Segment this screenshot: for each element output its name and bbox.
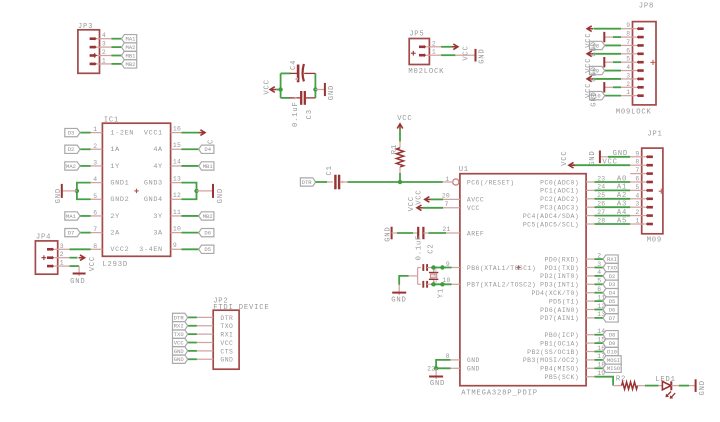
svg-text:GND: GND [328,85,336,100]
net label MB1 [199,162,214,170]
net label MA2 [122,43,137,51]
capacitor C4 [290,60,315,83]
net label DTR [300,178,315,186]
svg-text:VCC: VCC [467,205,480,212]
svg-text:3Y: 3Y [153,213,162,221]
svg-text:3: 3 [635,201,639,208]
wire [595,334,604,336]
svg-text:GND: GND [174,348,185,355]
wire [70,248,91,250]
svg-text:JP1: JP1 [647,130,662,138]
power VCC [415,189,443,204]
svg-text:GND2: GND2 [110,196,129,204]
net label MB1 [122,51,137,59]
wire [595,309,604,311]
wire [188,316,197,318]
power VCC [79,255,97,271]
wire [594,78,622,80]
svg-text:PB3(MOSI/OC2): PB3(MOSI/OC2) [523,357,579,364]
wire [605,44,621,46]
net label D4 [199,145,214,153]
resistor R1 [391,129,404,173]
wire [428,232,446,234]
svg-text:GND: GND [220,357,233,364]
svg-text:21: 21 [442,226,450,233]
capacitor C3 [289,91,315,127]
svg-text:TXO: TXO [220,323,233,330]
svg-text:1: 1 [93,126,97,133]
wire [595,275,604,277]
wire A2 [595,192,631,200]
connector JP5 [408,31,444,76]
svg-text:M09: M09 [647,236,662,244]
svg-text:D2: D2 [609,273,616,280]
wire [594,28,622,30]
svg-text:D2: D2 [68,146,75,153]
wire [348,181,443,183]
power VCC [199,130,216,154]
svg-text:3: 3 [102,41,106,48]
wire [188,342,197,344]
svg-text:3A: 3A [153,230,163,238]
svg-text:0.1uF: 0.1uF [292,101,300,127]
wire [188,325,197,327]
svg-text:DTR: DTR [220,315,233,322]
svg-text:PB1(OC1A): PB1(OC1A) [540,340,579,347]
wire [595,258,604,260]
capacitor C1 [326,165,348,189]
svg-text:5: 5 [626,56,630,63]
svg-text:15: 15 [173,142,181,149]
svg-text:TXO: TXO [607,264,618,271]
net label D5 [199,245,214,253]
wire [80,132,91,134]
wire [112,63,122,65]
svg-text:D4: D4 [204,146,211,153]
wire [595,351,604,353]
wire A1 [595,184,631,192]
svg-text:PD1(TXD): PD1(TXD) [545,265,580,272]
net label MA1 [65,212,80,220]
svg-text:PD7(AIN1): PD7(AIN1) [540,315,579,322]
junction [440,265,444,269]
svg-text:1: 1 [635,218,639,225]
power VCC [397,115,412,129]
svg-text:1: 1 [626,89,630,96]
ground [315,83,336,100]
power VCC [263,79,280,94]
svg-text:22: 22 [427,366,435,373]
svg-text:DTR: DTR [302,179,313,186]
svg-text:5: 5 [635,184,639,191]
svg-text:GND: GND [613,150,628,158]
svg-text:6: 6 [635,176,639,183]
junction [431,282,435,286]
wire [595,317,604,319]
svg-text:4: 4 [93,176,97,183]
svg-text:C2: C2 [428,244,436,254]
net label D6 [603,305,618,313]
net label GND [173,355,188,363]
wire [605,70,621,72]
net label MISO [603,364,621,372]
svg-text:Y1: Y1 [438,288,446,298]
svg-text:GND: GND [590,41,598,56]
svg-text:MISO: MISO [607,365,621,372]
wire [595,359,604,361]
svg-text:VCC: VCC [397,115,412,123]
net label D6 [199,228,214,236]
wire [595,292,604,294]
svg-text:GND: GND [478,48,486,63]
svg-text:12: 12 [173,192,181,199]
svg-text:1: 1 [60,260,64,267]
wire [605,95,621,97]
wire A0 [595,175,631,183]
net label D7 [65,228,80,236]
svg-text:PC5(ADC5/SCL): PC5(ADC5/SCL) [523,221,579,228]
wire [595,377,614,386]
svg-text:9: 9 [173,242,177,249]
svg-text:MB1: MB1 [203,163,214,170]
svg-text:2A: 2A [110,230,120,238]
net label D9 [590,66,605,74]
svg-text:L293D: L293D [102,261,128,269]
svg-text:0.1uF: 0.1uF [416,235,424,261]
svg-text:GND: GND [217,188,225,203]
net label RXI [173,322,188,330]
wire [399,173,401,182]
net label DTR [173,313,188,321]
svg-text:2: 2 [60,251,64,258]
svg-text:RXI: RXI [607,256,617,263]
svg-text:1: 1 [432,49,436,56]
svg-text:D10: D10 [607,348,617,355]
power VCC [452,44,470,61]
wire [399,276,417,285]
svg-text:A0: A0 [617,175,627,183]
wire [112,38,122,40]
svg-text:MA2: MA2 [126,44,136,51]
junction [398,180,402,184]
svg-text:R1: R1 [391,144,399,154]
wire [595,300,604,302]
ground [590,82,604,107]
svg-text:JP8: JP8 [639,2,654,10]
svg-text:27: 27 [597,209,605,216]
net label RXI [603,255,618,263]
svg-text:GND1: GND1 [110,180,129,188]
svg-text:M02LOCK: M02LOCK [408,68,444,76]
wire [314,73,316,98]
wire [281,97,290,99]
svg-text:1-2EN: 1-2EN [110,130,134,138]
wire A3 [595,201,631,209]
net label D2 [603,272,618,280]
svg-text:GND: GND [590,66,598,81]
wire [188,358,197,360]
net label D5 [603,297,618,305]
wire [595,342,604,344]
wire [181,148,198,150]
ground [689,379,707,395]
svg-text:VCC: VCC [89,256,97,271]
svg-text:MB1: MB1 [126,52,137,59]
svg-text:GND: GND [467,366,480,373]
svg-text:3: 3 [93,159,97,166]
svg-text:ATMEGA328P_PDIP: ATMEGA328P_PDIP [461,390,538,398]
net label TXO [603,263,618,271]
svg-text:VCC: VCC [602,159,617,167]
svg-text:A3: A3 [617,201,627,209]
svg-text:PB7(XTAL2/TOSC2): PB7(XTAL2/TOSC2) [467,282,536,289]
net label D10 [603,347,618,355]
ground [476,48,487,63]
wire [70,257,78,259]
svg-text:VCC: VCC [263,79,271,94]
svg-text:1Y: 1Y [110,163,119,171]
wire [397,232,413,234]
svg-text:PB5(SCK): PB5(SCK) [545,374,580,381]
svg-text:GND: GND [70,278,85,286]
svg-text:D6: D6 [609,306,616,313]
wire [316,181,327,183]
ground [589,150,608,165]
svg-text:2: 2 [102,49,106,56]
svg-text:JP5: JP5 [409,31,424,39]
svg-text:7: 7 [93,226,97,233]
wire [181,183,196,200]
svg-text:16: 16 [173,125,181,132]
wire [181,132,199,134]
svg-text:8: 8 [446,353,450,360]
crystal Y1 resonator [418,264,446,298]
junction [75,189,79,193]
svg-text:MB2: MB2 [203,213,213,220]
svg-text:26: 26 [597,201,605,208]
svg-text:PC3(ADC3): PC3(ADC3) [540,205,579,212]
wire [77,183,91,200]
power VCC [585,26,593,48]
junction [440,282,444,286]
svg-text:8: 8 [626,31,630,38]
net label D3 [65,128,80,136]
svg-text:GND: GND [391,297,406,305]
wire GND [608,150,630,158]
LED LED1 [655,376,679,399]
svg-text:GND: GND [589,150,597,165]
svg-text:11: 11 [173,209,181,216]
svg-text:C1: C1 [326,165,334,175]
connector JP8 [616,2,656,116]
svg-text:2: 2 [626,81,630,88]
net label D9 [603,339,618,347]
net label MA2 [65,162,80,170]
ground [391,285,406,305]
power VCC [561,150,575,168]
svg-text:TXO: TXO [174,331,185,338]
svg-text:R2: R2 [616,375,626,383]
svg-text:GND: GND [699,380,707,395]
svg-text:PC6(/RESET): PC6(/RESET) [467,179,515,186]
svg-text:1A: 1A [110,146,120,154]
wire [431,267,452,269]
wire [80,215,91,217]
svg-text:PD4(XCK/T0): PD4(XCK/T0) [532,290,580,297]
op-amp driver IC1 L293D [91,116,182,268]
wire [181,248,198,250]
ground [590,32,604,57]
svg-text:MA1: MA1 [126,36,137,43]
svg-text:PC1(ADC1): PC1(ADC1) [540,188,579,195]
wire [188,333,197,335]
svg-text:M09LOCK: M09LOCK [616,108,652,116]
svg-text:PD3(INT1): PD3(INT1) [540,282,579,289]
svg-text:5: 5 [93,193,97,200]
svg-text:RXI: RXI [220,332,233,339]
svg-text:VCC: VCC [415,189,423,204]
power VCC [585,76,593,98]
wire [181,232,198,234]
wire [70,266,80,276]
junction [434,366,438,370]
svg-text:A2: A2 [617,192,627,200]
svg-text:8: 8 [93,243,97,250]
wire [441,54,475,56]
ground [429,368,445,388]
svg-text:2Y: 2Y [110,213,119,221]
svg-text:7: 7 [626,39,630,46]
svg-text:D8: D8 [609,332,616,339]
wire [112,55,122,57]
svg-text:A1: A1 [617,184,627,192]
net label D7 [603,314,618,322]
net label TXO [173,330,188,338]
svg-text:PC4(ADC4/SDA): PC4(ADC4/SDA) [523,213,579,220]
svg-text:MB2: MB2 [126,61,136,68]
net label D8 [590,41,605,49]
junction [194,189,198,193]
wire [604,36,621,38]
svg-text:A4: A4 [617,209,627,217]
svg-text:7: 7 [445,201,449,208]
svg-text:D9: D9 [609,340,616,347]
svg-text:6: 6 [626,47,630,54]
svg-text:28: 28 [597,217,605,224]
svg-text:GND: GND [174,356,185,363]
wire [604,86,621,88]
capacitor C2 0.1uF [413,227,435,261]
svg-text:VCC1: VCC1 [144,130,163,138]
connector JP4 [35,234,69,275]
wire [679,385,689,387]
svg-text:GND: GND [467,357,480,364]
svg-text:PB6(XTAL1/TOSC1): PB6(XTAL1/TOSC1) [467,265,536,272]
svg-text:8: 8 [635,159,639,166]
svg-text:D7: D7 [68,230,75,237]
wire VCC [573,159,630,167]
wire [181,215,198,217]
ground [384,226,397,241]
svg-text:10: 10 [173,225,181,232]
junction [278,87,282,91]
svg-text:9: 9 [635,150,639,157]
svg-text:GND: GND [55,188,63,203]
svg-text:GND: GND [590,91,598,106]
svg-text:GND: GND [384,226,392,241]
svg-text:D7: D7 [609,315,616,322]
wire [436,360,451,368]
ground [70,274,85,287]
net label GND [173,347,188,355]
wire [80,148,91,150]
svg-text:GND: GND [430,380,445,388]
wire [595,283,604,285]
svg-text:C4: C4 [290,60,298,70]
svg-text:RXI: RXI [174,323,184,330]
svg-text:20: 20 [442,192,450,199]
svg-text:6: 6 [93,209,97,216]
svg-text:24: 24 [597,184,605,191]
svg-text:D6: D6 [204,230,211,237]
ground [55,184,77,204]
svg-text:D5: D5 [609,298,616,305]
svg-text:PD5(T1): PD5(T1) [549,298,579,305]
svg-text:13: 13 [173,175,181,182]
svg-text:14: 14 [173,159,181,166]
svg-text:MA1: MA1 [66,213,77,220]
net label MB2 [122,60,137,68]
svg-text:MA2: MA2 [66,163,76,170]
svg-text:2: 2 [93,143,97,150]
ground [590,57,604,82]
svg-text:3: 3 [626,72,630,79]
wire [604,61,621,63]
svg-text:VCC: VCC [408,196,416,211]
svg-text:MOSI: MOSI [607,357,620,364]
wire [431,283,452,285]
svg-text:9: 9 [626,22,630,29]
svg-text:AVCC: AVCC [467,197,484,204]
resistor R2 [613,375,645,389]
svg-text:PC2(ADC2): PC2(ADC2) [540,196,579,203]
svg-text:23: 23 [597,175,605,182]
svg-text:PD6(AIN0): PD6(AIN0) [540,307,579,314]
svg-text:PB4(MISO): PB4(MISO) [540,366,579,373]
svg-text:3-4EN: 3-4EN [139,246,163,254]
svg-text:CTS: CTS [220,348,233,355]
ground [197,184,225,204]
svg-text:D5: D5 [204,246,211,253]
wire [595,267,604,269]
svg-text:PB2(SS/OC1B): PB2(SS/OC1B) [527,349,579,356]
svg-text:GND4: GND4 [144,196,163,204]
svg-text:4Y: 4Y [153,163,162,171]
wire [80,232,91,234]
svg-text:4: 4 [626,64,630,71]
net label MB2 [199,212,214,220]
svg-text:7: 7 [635,167,639,174]
wire [645,385,659,387]
svg-text:A5: A5 [617,217,627,225]
net label D2 [65,145,80,153]
net label D3 [603,280,618,288]
svg-text:VCC: VCC [220,340,233,347]
wire [441,46,452,48]
wire [80,165,91,167]
connector JP3 [78,23,112,73]
svg-text:PC0(ADC0): PC0(ADC0) [540,179,579,186]
